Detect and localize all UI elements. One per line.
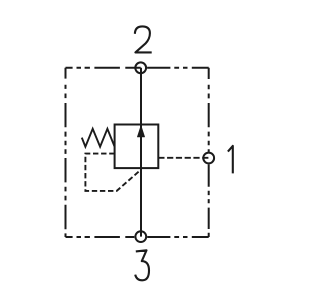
- pilot line to port 1 (dashed): [158, 157, 208, 159]
- enclosure border bottom (dash-dot): [66, 236, 209, 238]
- label 2 (top port): [135, 26, 152, 52]
- enclosure border right (dash-dot): [208, 68, 210, 237]
- port 1 circle: [203, 153, 214, 164]
- flow direction arrow: [137, 126, 144, 137]
- pilot line left loop (dashed): [85, 154, 141, 191]
- port 3 circle: [135, 231, 146, 242]
- spring: [82, 129, 115, 147]
- port 2 circle: [135, 62, 146, 73]
- label 3 (bottom port): [135, 250, 149, 280]
- valve body square: [115, 125, 159, 169]
- label 1 (right port): [228, 146, 233, 174]
- enclosure border top (dash-dot): [66, 67, 209, 69]
- main flow line port2 to port3: [140, 68, 142, 237]
- enclosure border left (dash-dot): [65, 68, 67, 237]
